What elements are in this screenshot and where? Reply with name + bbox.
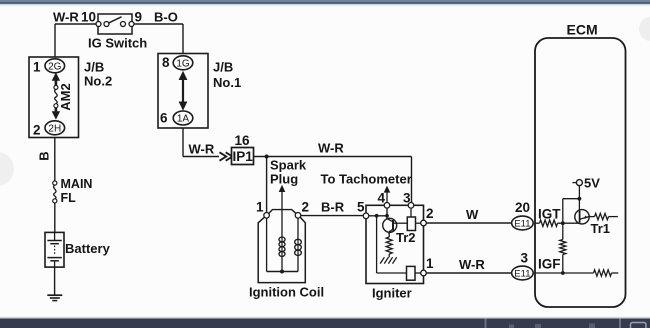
svg-text:W-R: W-R: [459, 257, 485, 272]
svg-text:Spark: Spark: [270, 158, 307, 173]
svg-text:2: 2: [302, 200, 310, 215]
svg-text:6: 6: [160, 111, 168, 126]
svg-text:E11: E11: [514, 268, 530, 279]
svg-text:Ignition Coil: Ignition Coil: [249, 285, 324, 300]
svg-text:Battery: Battery: [65, 241, 111, 256]
svg-text:1A: 1A: [177, 114, 190, 125]
svg-text:B-R: B-R: [321, 200, 345, 215]
svg-text:8: 8: [162, 55, 170, 70]
svg-text:To Tachometer: To Tachometer: [321, 172, 412, 187]
svg-text:W-R: W-R: [318, 141, 344, 156]
svg-text:FL: FL: [61, 191, 77, 205]
svg-text:1: 1: [256, 200, 264, 215]
svg-text:9: 9: [135, 10, 143, 25]
svg-text:W-R: W-R: [53, 10, 79, 25]
svg-text:AM2: AM2: [58, 83, 73, 110]
svg-text:3: 3: [521, 251, 529, 266]
svg-text:No.2: No.2: [84, 74, 112, 89]
svg-text:B: B: [37, 151, 52, 160]
svg-text:2: 2: [426, 206, 434, 221]
svg-text:20: 20: [515, 200, 530, 215]
svg-text:5: 5: [357, 200, 365, 215]
svg-text:MAIN: MAIN: [61, 177, 93, 191]
svg-text:Tr1: Tr1: [591, 221, 611, 236]
svg-text:2H: 2H: [48, 123, 61, 134]
svg-text:2G: 2G: [48, 61, 62, 72]
svg-text:J/B: J/B: [84, 60, 104, 75]
svg-text:1: 1: [33, 60, 41, 75]
svg-text:IP1: IP1: [232, 149, 253, 164]
svg-text:B-O: B-O: [154, 10, 178, 25]
svg-text:Igniter: Igniter: [372, 286, 412, 301]
svg-text:10: 10: [81, 10, 96, 25]
svg-text:E11: E11: [514, 218, 530, 229]
svg-text:W: W: [466, 207, 479, 222]
svg-text:ECM: ECM: [567, 22, 598, 38]
svg-text:16: 16: [235, 133, 251, 148]
svg-text:1: 1: [426, 256, 434, 271]
svg-text:4: 4: [378, 190, 386, 205]
svg-text:J/B: J/B: [213, 60, 233, 75]
svg-text:No.1: No.1: [213, 75, 241, 90]
svg-text:2: 2: [33, 123, 41, 138]
svg-text:IGF: IGF: [538, 257, 561, 272]
svg-text:Plug: Plug: [270, 172, 298, 187]
svg-text:Tr2: Tr2: [396, 230, 416, 245]
svg-text:5V: 5V: [584, 176, 600, 191]
svg-text:1G: 1G: [176, 58, 190, 69]
svg-text:W-R: W-R: [189, 142, 215, 157]
svg-text:IG Switch: IG Switch: [88, 36, 147, 51]
